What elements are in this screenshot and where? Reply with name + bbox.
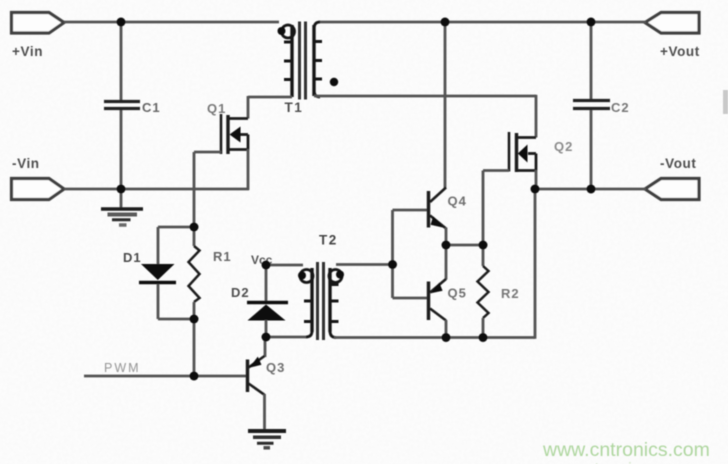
node D2-T2 bottom	[262, 333, 271, 342]
wire C1 bottom branch	[120, 110, 123, 190]
wire bottom return	[334, 336, 535, 339]
node R2 bottom	[479, 333, 488, 342]
wire base bus	[391, 210, 394, 298]
ground (under Q3)	[248, 431, 286, 448]
node Q4 rail	[441, 18, 450, 27]
transistor Q4	[429, 188, 447, 229]
node Vcc	[262, 261, 271, 270]
svg-text:Q4: Q4	[448, 194, 467, 209]
capacitor C1	[104, 102, 140, 109]
wire C2 bottom branch	[590, 110, 593, 189]
svg-text:PWM: PWM	[104, 361, 141, 375]
svg-text:Q3: Q3	[266, 360, 285, 375]
wire C1 top branch	[120, 22, 123, 100]
transistor Q2 (MOSFET)	[509, 132, 536, 172]
svg-text:Q2: Q2	[554, 139, 573, 154]
transformer T1	[278, 22, 339, 100]
port +Vin	[12, 13, 65, 34]
wire Q2 source down	[535, 170, 538, 190]
node base bus	[388, 260, 397, 269]
wire top-left rail	[64, 21, 279, 24]
transistor Q1 (MOSFET)	[221, 114, 248, 154]
svg-text:+Vout: +Vout	[660, 44, 700, 59]
wire Q5 collector up	[445, 245, 448, 280]
svg-text:-Vin: -Vin	[12, 156, 40, 171]
node C2 bottom	[587, 185, 596, 194]
wire Q1 source down	[247, 149, 250, 190]
wire D1 top link	[158, 226, 194, 229]
wire T2 bottom-left link	[266, 336, 307, 339]
capacitor C2	[573, 101, 610, 109]
node -Vin/C1	[117, 185, 126, 194]
wire top-right rail	[319, 21, 646, 24]
wire Q1 gate run	[194, 151, 221, 154]
wire -Vin rail	[64, 188, 249, 191]
transistor Q3	[248, 356, 265, 395]
wire Q2 gate run	[483, 169, 509, 172]
wire Q4 collector to top rail	[444, 22, 447, 188]
wire Q5 emitter down	[445, 320, 448, 338]
transistor Q5	[429, 279, 447, 321]
node Q5 emitter bottom	[442, 333, 451, 342]
svg-text:+Vin: +Vin	[12, 44, 43, 59]
wire Q2 drain vertical	[535, 95, 538, 138]
wire Q1 drain vertical	[247, 96, 250, 119]
svg-text:T1: T1	[285, 100, 304, 115]
svg-text:www.cntronics.com: www.cntronics.com	[526, 459, 694, 464]
svg-text:Q1: Q1	[207, 101, 226, 116]
svg-text:Q5: Q5	[448, 286, 467, 301]
wire D2 to node	[265, 320, 268, 338]
wire D1 upper	[157, 227, 160, 264]
svg-text:R1: R1	[213, 249, 232, 264]
node Q4 emitter	[442, 241, 451, 250]
wire Q2 gate down	[482, 171, 485, 246]
port -Vin	[12, 179, 65, 200]
svg-text:T2: T2	[319, 233, 338, 248]
port -Vout	[645, 179, 699, 200]
svg-text:D2: D2	[231, 285, 250, 300]
ground (under C1)	[101, 189, 143, 225]
diode D2	[247, 303, 288, 321]
wire Q4 base stub	[393, 209, 429, 212]
node PWM junction	[190, 372, 199, 381]
transformer T2	[298, 262, 344, 340]
wire Q1 gate down	[193, 152, 196, 227]
svg-text:www.cntronics.com: www.cntronics.com	[542, 439, 710, 461]
wire T2 secondary top to base bus	[336, 263, 393, 266]
node D1-R1 bottom	[190, 315, 199, 324]
port +Vout	[645, 13, 699, 34]
wire Q3 emitter down	[263, 394, 266, 429]
wire node link Q4/Q5 to R2	[446, 244, 483, 247]
node C1 top	[117, 18, 126, 27]
node R2 top	[479, 241, 488, 250]
wire R1 to PWM node	[193, 319, 196, 376]
wire Q5 base stub	[393, 297, 429, 300]
wire Q4 emitter down	[445, 228, 448, 247]
wire Vcc to D2	[265, 265, 268, 301]
svg-text:C2: C2	[611, 100, 630, 115]
wire T1 bottom-right rail	[314, 95, 536, 98]
node Q2 source/-Vout	[531, 185, 540, 194]
wire Q3 collector up	[264, 337, 267, 357]
svg-text:C1: C1	[142, 100, 161, 115]
diode D1	[139, 264, 176, 283]
svg-text:-Vout: -Vout	[660, 156, 697, 171]
svg-text:D1: D1	[123, 250, 142, 265]
resistor R1	[189, 227, 200, 319]
wire T1 bottom-left to Q1 drain	[248, 96, 292, 99]
node C2 top	[587, 18, 596, 27]
wire -Vout rail	[535, 188, 646, 191]
wire D1 bottom link	[158, 318, 194, 321]
svg-text:R2: R2	[501, 286, 520, 301]
wire PWM line	[84, 375, 247, 378]
node D1-R1 top	[190, 223, 199, 232]
resistor R2	[478, 245, 489, 338]
wire D1 lower	[157, 284, 160, 319]
wire C2 top branch	[590, 22, 593, 100]
wire Vcc to T2	[266, 264, 303, 267]
right edge artifact	[723, 90, 728, 114]
wire right riser	[534, 189, 537, 339]
